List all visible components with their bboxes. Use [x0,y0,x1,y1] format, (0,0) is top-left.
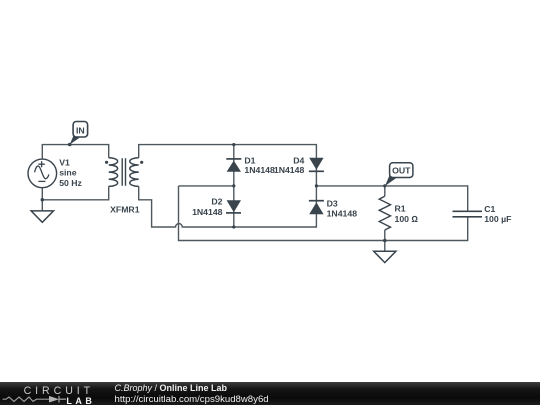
svg-text:sine: sine [59,168,77,178]
svg-text:R1: R1 [395,203,406,213]
svg-text:V1: V1 [59,157,70,167]
svg-text:D4: D4 [293,155,304,165]
svg-text:C1: C1 [484,204,495,214]
svg-text:D3: D3 [327,198,338,208]
svg-text:XFMR1: XFMR1 [110,204,140,214]
svg-text:D1: D1 [244,155,255,165]
svg-text:1N4148: 1N4148 [327,209,358,219]
svg-text:100 Ω: 100 Ω [395,214,419,224]
svg-text:1N4148: 1N4148 [274,165,305,175]
svg-text:IN: IN [76,125,85,135]
svg-text:1N4148: 1N4148 [192,207,223,217]
svg-text:50 Hz: 50 Hz [59,178,82,188]
svg-text:1N4148: 1N4148 [244,165,275,175]
svg-text:OUT: OUT [392,165,411,175]
svg-text:D2: D2 [211,197,222,207]
svg-text:100 µF: 100 µF [484,214,511,224]
